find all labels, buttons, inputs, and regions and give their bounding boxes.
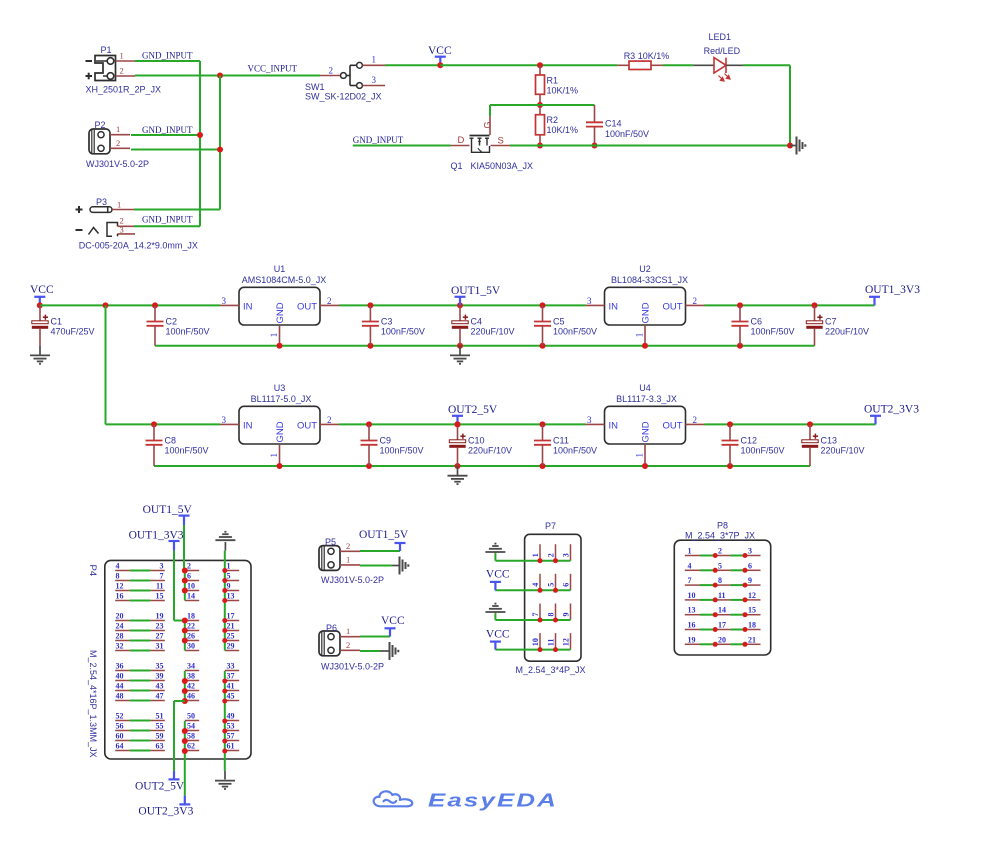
svg-text:220uF/10V: 220uF/10V	[471, 326, 515, 336]
svg-text:OUT1_3V3: OUT1_3V3	[865, 284, 920, 296]
svg-text:470uF/25V: 470uF/25V	[51, 326, 95, 336]
svg-text:C7: C7	[825, 317, 837, 327]
svg-text:WJ301V-5.0-2P: WJ301V-5.0-2P	[86, 159, 149, 169]
svg-text:14: 14	[718, 606, 726, 615]
svg-text:50: 50	[187, 712, 195, 721]
svg-text:C8: C8	[165, 436, 177, 446]
svg-text:19: 19	[156, 612, 164, 621]
svg-text:54: 54	[187, 722, 195, 731]
svg-text:40: 40	[116, 672, 124, 681]
svg-text:OUT: OUT	[662, 420, 682, 431]
svg-text:25: 25	[227, 632, 235, 641]
svg-text:1: 1	[635, 333, 645, 338]
svg-text:SW_SK-12D02_JX: SW_SK-12D02_JX	[305, 92, 382, 102]
svg-text:OUT1_3V3: OUT1_3V3	[129, 530, 184, 542]
svg-text:1: 1	[269, 453, 279, 458]
svg-text:9: 9	[562, 613, 571, 617]
svg-text:15: 15	[156, 592, 164, 601]
svg-text:61: 61	[227, 742, 235, 751]
svg-text:IN: IN	[609, 301, 619, 312]
svg-text:63: 63	[156, 742, 164, 751]
svg-text:VCC: VCC	[486, 569, 510, 581]
svg-text:1: 1	[688, 547, 692, 556]
svg-text:22: 22	[187, 622, 195, 631]
svg-text:41: 41	[227, 682, 235, 691]
svg-text:59: 59	[156, 732, 164, 741]
svg-text:20: 20	[116, 612, 124, 621]
svg-text:7: 7	[688, 576, 692, 585]
svg-text:IN: IN	[243, 301, 253, 312]
svg-text:100nF/50V: 100nF/50V	[605, 129, 649, 139]
svg-text:2: 2	[116, 138, 120, 148]
svg-text:14: 14	[187, 592, 195, 601]
svg-text:36: 36	[116, 662, 124, 671]
svg-text:3: 3	[160, 562, 164, 571]
svg-text:C1: C1	[51, 317, 63, 327]
svg-text:3: 3	[587, 415, 592, 425]
svg-text:5: 5	[547, 583, 556, 587]
svg-text:100nF/50V: 100nF/50V	[381, 326, 425, 336]
svg-text:C10: C10	[468, 436, 485, 446]
svg-text:C3: C3	[381, 317, 393, 327]
svg-text:OUT1_5V: OUT1_5V	[359, 529, 409, 541]
svg-text:OUT1_5V: OUT1_5V	[143, 504, 193, 516]
svg-text:GND_INPUT: GND_INPUT	[142, 125, 193, 135]
svg-text:220uF/10V: 220uF/10V	[821, 445, 865, 455]
svg-text:23: 23	[156, 622, 164, 631]
svg-text:C12: C12	[741, 436, 758, 446]
svg-text:2: 2	[187, 562, 191, 571]
svg-text:100nF/50V: 100nF/50V	[380, 445, 424, 455]
svg-text:2: 2	[327, 296, 332, 306]
svg-text:10K/1%: 10K/1%	[547, 125, 579, 135]
svg-text:1: 1	[372, 55, 377, 65]
svg-text:C14: C14	[605, 119, 622, 129]
svg-text:51: 51	[156, 712, 164, 721]
svg-text:GND_INPUT: GND_INPUT	[353, 135, 404, 145]
svg-text:100nF/50V: 100nF/50V	[166, 326, 210, 336]
svg-text:62: 62	[187, 742, 195, 751]
svg-text:IN: IN	[609, 420, 619, 431]
svg-text:1: 1	[346, 554, 350, 564]
svg-text:GND_INPUT: GND_INPUT	[142, 51, 193, 61]
svg-text:16: 16	[116, 592, 124, 601]
svg-text:10: 10	[688, 591, 696, 600]
svg-text:11: 11	[718, 591, 726, 600]
svg-text:2: 2	[346, 640, 350, 650]
svg-text:5: 5	[227, 572, 231, 581]
svg-text:12: 12	[748, 591, 756, 600]
svg-text:1: 1	[227, 562, 231, 571]
svg-text:53: 53	[227, 722, 235, 731]
svg-text:100nF/50V: 100nF/50V	[553, 445, 597, 455]
svg-text:6: 6	[187, 572, 191, 581]
svg-text:2: 2	[547, 553, 556, 557]
svg-text:2: 2	[346, 541, 350, 551]
svg-text:17: 17	[718, 621, 726, 630]
svg-text:M_2.54_3*4P_JX: M_2.54_3*4P_JX	[516, 665, 586, 675]
svg-text:LED1: LED1	[709, 32, 732, 42]
svg-text:55: 55	[156, 722, 164, 731]
svg-text:Q1: Q1	[451, 161, 463, 171]
svg-text:45: 45	[227, 692, 235, 701]
svg-text:46: 46	[187, 692, 195, 701]
svg-text:9: 9	[227, 582, 231, 591]
svg-text:R2: R2	[547, 115, 559, 125]
svg-text:7: 7	[531, 613, 540, 617]
svg-text:G: G	[483, 121, 493, 128]
svg-text:24: 24	[116, 622, 124, 631]
svg-text:18: 18	[187, 612, 195, 621]
svg-text:3: 3	[748, 547, 752, 556]
svg-text:5: 5	[718, 561, 722, 570]
svg-text:12: 12	[116, 582, 124, 591]
svg-text:43: 43	[156, 682, 164, 691]
svg-text:OUT: OUT	[297, 420, 317, 431]
svg-text:M_2.54_4*16P_1.3MM_JX: M_2.54_4*16P_1.3MM_JX	[88, 650, 98, 758]
svg-text:35: 35	[156, 662, 164, 671]
svg-text:P3: P3	[96, 197, 107, 207]
svg-text:100nF/50V: 100nF/50V	[165, 445, 209, 455]
svg-text:OUT2_5V: OUT2_5V	[448, 404, 498, 416]
svg-text:Red/LED: Red/LED	[704, 46, 741, 56]
svg-text:30: 30	[187, 642, 195, 651]
svg-text:M_2.54_3*7P_JX: M_2.54_3*7P_JX	[685, 531, 755, 541]
svg-text:VCC_INPUT: VCC_INPUT	[248, 64, 298, 74]
svg-text:100nF/50V: 100nF/50V	[741, 445, 785, 455]
svg-text:WJ301V-5.0-2P: WJ301V-5.0-2P	[321, 575, 384, 585]
svg-text:1: 1	[116, 124, 120, 134]
svg-text:P1: P1	[101, 45, 112, 55]
svg-text:SW1: SW1	[305, 82, 325, 92]
svg-text:1: 1	[531, 553, 540, 557]
svg-text:2: 2	[329, 66, 334, 76]
svg-text:6: 6	[748, 561, 752, 570]
svg-text:R3 10K/1%: R3 10K/1%	[624, 51, 670, 61]
svg-text:8: 8	[718, 576, 722, 585]
svg-text:P2: P2	[95, 120, 106, 130]
svg-text:11: 11	[547, 639, 556, 647]
svg-text:21: 21	[227, 622, 235, 631]
svg-text:R1: R1	[547, 76, 559, 86]
svg-text:GND: GND	[641, 302, 652, 323]
svg-text:D: D	[458, 135, 465, 146]
svg-text:57: 57	[227, 732, 235, 741]
svg-text:C11: C11	[553, 436, 569, 446]
svg-text:2: 2	[693, 296, 698, 306]
svg-text:C5: C5	[553, 317, 565, 327]
svg-text:33: 33	[227, 662, 235, 671]
svg-text:16: 16	[688, 621, 696, 630]
svg-text:1: 1	[346, 626, 350, 636]
svg-text:P4: P4	[87, 565, 98, 577]
svg-text:U1: U1	[274, 264, 286, 274]
svg-text:2: 2	[120, 66, 124, 76]
svg-text:60: 60	[116, 732, 124, 741]
svg-text:3: 3	[222, 296, 227, 306]
svg-text:220uF/10V: 220uF/10V	[825, 326, 869, 336]
svg-text:OUT2_3V3: OUT2_3V3	[864, 403, 919, 415]
svg-text:28: 28	[116, 632, 124, 641]
svg-text:7: 7	[160, 572, 164, 581]
svg-text:C2: C2	[166, 317, 178, 327]
svg-text:48: 48	[116, 692, 124, 701]
svg-text:P7: P7	[545, 521, 556, 531]
svg-text:8: 8	[116, 572, 120, 581]
svg-text:17: 17	[227, 612, 235, 621]
svg-text:10K/1%: 10K/1%	[547, 86, 579, 96]
svg-text:29: 29	[227, 642, 235, 651]
svg-text:10: 10	[187, 582, 195, 591]
svg-text:S: S	[498, 136, 504, 147]
svg-text:U4: U4	[639, 383, 651, 393]
svg-text:BL1117-5.0_JX: BL1117-5.0_JX	[251, 394, 312, 404]
svg-text:GND: GND	[641, 421, 652, 442]
svg-text:32: 32	[116, 642, 124, 651]
svg-text:11: 11	[156, 582, 164, 591]
svg-text:IN: IN	[243, 420, 253, 431]
svg-text:4: 4	[531, 583, 540, 587]
svg-text:OUT1_5V: OUT1_5V	[451, 285, 501, 297]
svg-text:OUT2_5V: OUT2_5V	[135, 781, 185, 793]
svg-text:AMS1084CM-5.0_JX: AMS1084CM-5.0_JX	[242, 275, 327, 285]
svg-text:2: 2	[693, 415, 698, 425]
svg-text:3: 3	[562, 553, 571, 557]
svg-text:4: 4	[688, 561, 692, 570]
svg-text:VCC: VCC	[381, 615, 405, 627]
svg-text:XH_2501R_2P_JX: XH_2501R_2P_JX	[86, 85, 162, 95]
svg-text:64: 64	[116, 742, 124, 751]
svg-text:49: 49	[227, 712, 235, 721]
svg-text:56: 56	[116, 722, 124, 731]
svg-text:EasyEDA: EasyEDA	[428, 791, 558, 811]
svg-text:4: 4	[116, 562, 120, 571]
svg-text:31: 31	[156, 642, 164, 651]
svg-text:13: 13	[688, 606, 696, 615]
svg-text:GND: GND	[275, 302, 286, 323]
svg-text:19: 19	[688, 635, 696, 644]
svg-text:37: 37	[227, 672, 235, 681]
svg-text:P5: P5	[325, 537, 336, 547]
svg-text:220uF/10V: 220uF/10V	[468, 445, 512, 455]
svg-text:BL1084-33CS1_JX: BL1084-33CS1_JX	[611, 275, 688, 285]
svg-text:VCC: VCC	[486, 628, 510, 640]
svg-text:42: 42	[187, 682, 195, 691]
svg-text:3: 3	[222, 415, 227, 425]
svg-text:VCC: VCC	[30, 284, 54, 296]
svg-text:1: 1	[269, 333, 279, 338]
svg-text:2: 2	[327, 415, 332, 425]
svg-text:58: 58	[187, 732, 195, 741]
svg-text:21: 21	[748, 635, 756, 644]
svg-text:12: 12	[562, 638, 571, 646]
svg-text:10: 10	[531, 638, 540, 646]
svg-text:GND_INPUT: GND_INPUT	[142, 215, 193, 225]
svg-text:38: 38	[187, 672, 195, 681]
svg-text:C4: C4	[471, 317, 483, 327]
svg-text:OUT2_3V3: OUT2_3V3	[138, 806, 193, 818]
svg-text:1: 1	[635, 453, 645, 458]
svg-text:KIA50N03A_JX: KIA50N03A_JX	[471, 161, 534, 171]
svg-text:P8: P8	[717, 521, 728, 531]
svg-text:C6: C6	[751, 317, 763, 327]
svg-text:47: 47	[156, 692, 164, 701]
svg-text:OUT: OUT	[662, 301, 682, 312]
svg-text:3: 3	[372, 75, 377, 85]
svg-text:100nF/50V: 100nF/50V	[553, 326, 597, 336]
svg-text:18: 18	[748, 621, 756, 630]
svg-text:U3: U3	[274, 383, 286, 393]
svg-text:6: 6	[562, 583, 571, 587]
svg-text:9: 9	[748, 576, 752, 585]
svg-text:27: 27	[156, 632, 164, 641]
svg-text:26: 26	[187, 632, 195, 641]
svg-text:100nF/50V: 100nF/50V	[751, 326, 795, 336]
svg-text:GND: GND	[275, 421, 286, 442]
svg-text:13: 13	[227, 592, 235, 601]
svg-text:34: 34	[187, 662, 195, 671]
svg-text:8: 8	[547, 613, 556, 617]
svg-text:DC-005-20A_14.2*9.0mm_JX: DC-005-20A_14.2*9.0mm_JX	[79, 241, 198, 251]
svg-text:C13: C13	[821, 436, 838, 446]
svg-text:1: 1	[117, 200, 121, 210]
svg-text:3: 3	[120, 224, 124, 234]
svg-text:VCC: VCC	[428, 45, 452, 57]
svg-text:2: 2	[718, 547, 722, 556]
svg-text:44: 44	[116, 682, 124, 691]
svg-text:BL1117-3.3_JX: BL1117-3.3_JX	[616, 394, 677, 404]
svg-text:1: 1	[120, 51, 124, 61]
svg-text:3: 3	[587, 296, 592, 306]
svg-text:WJ301V-5.0-2P: WJ301V-5.0-2P	[321, 662, 384, 672]
svg-text:P6: P6	[326, 623, 337, 633]
svg-text:U2: U2	[639, 264, 651, 274]
svg-text:15: 15	[748, 606, 756, 615]
svg-text:OUT: OUT	[297, 301, 317, 312]
svg-text:52: 52	[116, 712, 124, 721]
svg-text:C9: C9	[380, 436, 392, 446]
svg-text:39: 39	[156, 672, 164, 681]
svg-text:20: 20	[718, 635, 726, 644]
